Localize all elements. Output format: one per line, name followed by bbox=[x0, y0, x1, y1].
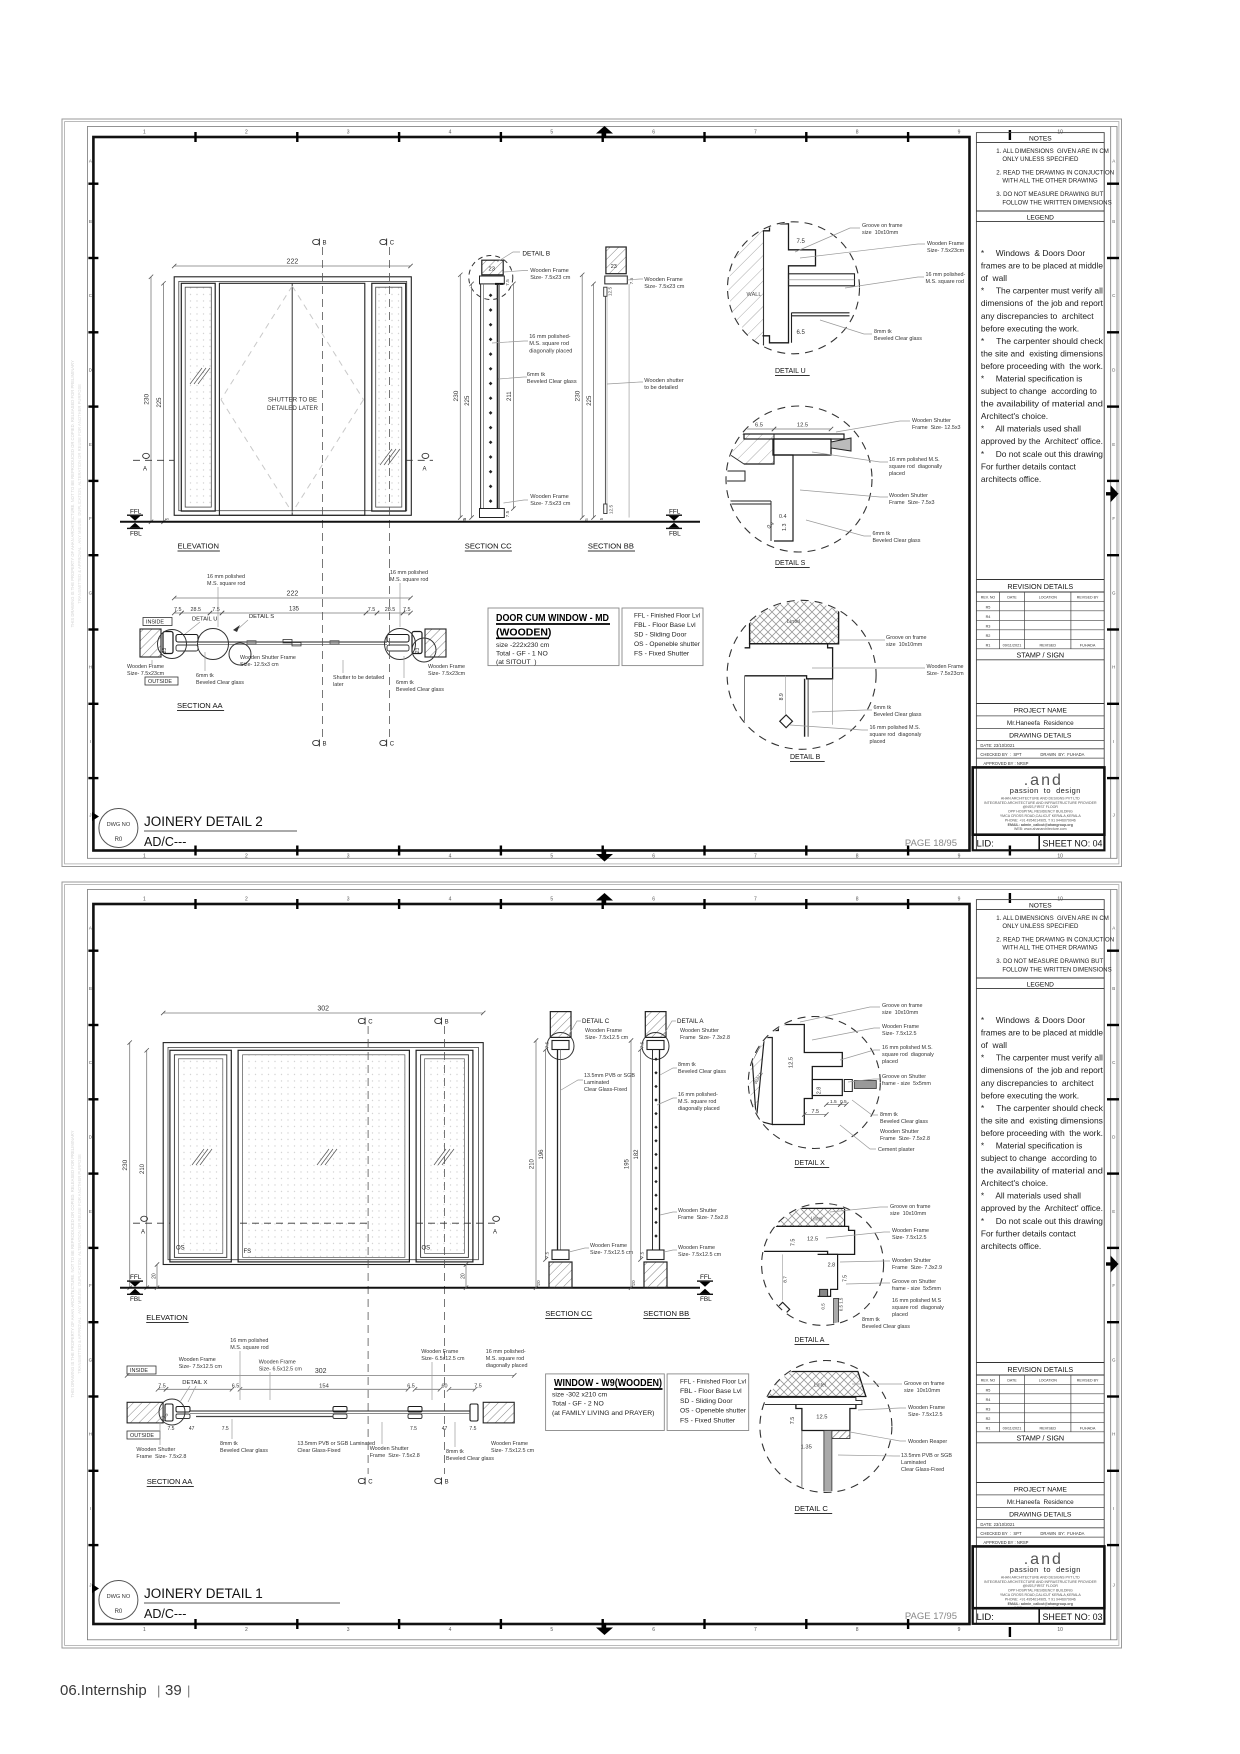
svg-text:TRANSMITTED & APPROVAL . ANY M: TRANSMITTED & APPROVAL . ANY MISUSE DUPL… bbox=[77, 1154, 82, 1374]
svg-text:196: 196 bbox=[539, 1149, 545, 1160]
s2 plan left wall hatch bbox=[127, 1402, 163, 1423]
svg-text:4: 4 bbox=[449, 897, 452, 903]
svg-text:to be detailed: to be detailed bbox=[644, 385, 678, 391]
svg-text:7.5: 7.5 bbox=[368, 607, 376, 613]
detail S circle bbox=[726, 406, 872, 552]
svg-text:size 10x10mm: size 10x10mm bbox=[862, 230, 899, 236]
svg-text:7: 7 bbox=[754, 1627, 757, 1633]
section CC top hatched frame block bbox=[482, 260, 503, 275]
svg-text:7: 7 bbox=[754, 130, 757, 136]
svg-text:6mm tk: 6mm tk bbox=[196, 673, 214, 679]
detail A lintel hatch bbox=[765, 1208, 845, 1226]
svg-text:DETAIL B: DETAIL B bbox=[522, 251, 550, 258]
svg-text:Size- 12.5x3 cm: Size- 12.5x3 cm bbox=[240, 662, 279, 668]
sheet2 dims 230 210 bbox=[129, 1043, 131, 1288]
svg-text:later: later bbox=[333, 682, 344, 688]
svg-text:architects office.: architects office. bbox=[981, 474, 1041, 484]
svg-text:J: J bbox=[1113, 1583, 1115, 1588]
svg-text:Beveled Clear glass: Beveled Clear glass bbox=[874, 712, 922, 718]
right column outer box bbox=[976, 900, 1104, 1624]
svg-text:Wooden Shutter: Wooden Shutter bbox=[889, 493, 928, 499]
svg-text:JOINERY DETAIL 1: JOINERY DETAIL 1 bbox=[144, 1586, 263, 1601]
s2 plan frame members bbox=[165, 1404, 173, 1421]
detail C reaper hatched bbox=[828, 1431, 850, 1439]
svg-text:AHAN ARCHITECTURE AND DESIGNS: AHAN ARCHITECTURE AND DESIGNS PVT LTD bbox=[1001, 796, 1080, 800]
svg-text:SECTION CC: SECTION CC bbox=[465, 542, 512, 551]
svg-text:Shutter to be detailed: Shutter to be detailed bbox=[333, 675, 384, 681]
sheet2 elevation frame bbox=[163, 1043, 483, 1265]
sheet2 centre FS panel bbox=[238, 1050, 409, 1262]
svg-text:Wooden Frame: Wooden Frame bbox=[927, 664, 964, 670]
svg-text:FS: FS bbox=[244, 1249, 252, 1255]
svg-text:I: I bbox=[1113, 739, 1114, 744]
section AA B C dashed continuation bbox=[321, 560, 323, 737]
svg-text:7.5: 7.5 bbox=[812, 1109, 820, 1115]
detail A glass strip bbox=[834, 1298, 839, 1338]
s2 CC glass strip bbox=[557, 1050, 559, 1251]
svg-text:2. READ THE DRAWING IN CONJUCT: 2. READ THE DRAWING IN CONJUCTION bbox=[996, 937, 1114, 944]
svg-text:* Do not scale out this dr: * Do not scale out this drawing bbox=[981, 449, 1103, 459]
svg-text:Size- 7.5x23 cm: Size- 7.5x23 cm bbox=[644, 284, 684, 290]
detail C circle bbox=[760, 1361, 892, 1493]
svg-text:210: 210 bbox=[530, 1158, 536, 1169]
marker B bottom bbox=[313, 740, 320, 745]
svg-text:13.5mm PVB or SGB Laminated: 13.5mm PVB or SGB Laminated bbox=[297, 1441, 375, 1447]
sheet2 floor line bbox=[120, 1287, 700, 1289]
svg-text:M.S. square rod: M.S. square rod bbox=[926, 279, 964, 285]
svg-text:1: 1 bbox=[143, 897, 146, 903]
svg-text:square rod diagonaly: square rod diagonaly bbox=[892, 1305, 944, 1311]
svg-text:DETAIL B: DETAIL B bbox=[790, 754, 821, 761]
ruler ticks top/bottom bbox=[194, 899, 196, 909]
sheet2 right OS panel bbox=[416, 1050, 473, 1262]
svg-text:size 10x10mm: size 10x10mm bbox=[890, 1211, 927, 1217]
svg-text:I: I bbox=[1113, 1506, 1114, 1511]
svg-text:230: 230 bbox=[144, 393, 151, 404]
svg-text:OS - Openeble shutter: OS - Openeble shutter bbox=[634, 641, 701, 648]
s2 plan detail bubble bbox=[159, 1399, 185, 1425]
svg-text:frames are to be placed at mid: frames are to be placed at middle bbox=[981, 261, 1103, 271]
svg-text:5: 5 bbox=[550, 130, 553, 136]
svg-text:DETAIL A: DETAIL A bbox=[677, 1018, 704, 1025]
svg-text:APPROVED BY : NRSP: APPROVED BY : NRSP bbox=[983, 1540, 1028, 1545]
svg-text:3: 3 bbox=[347, 130, 350, 136]
svg-text:Wooden Frame: Wooden Frame bbox=[678, 1245, 715, 1251]
detail S lower ledge bbox=[721, 500, 771, 502]
svg-text:1: 1 bbox=[143, 854, 146, 860]
reference band inner right line bbox=[1110, 127, 1112, 859]
svg-text:of wall: of wall bbox=[981, 1040, 1007, 1050]
centering arrow right bbox=[1111, 485, 1119, 502]
svg-text:INSIDE: INSIDE bbox=[146, 620, 164, 626]
svg-text:ELEVATION: ELEVATION bbox=[146, 1313, 188, 1322]
plan sliding meeting stiles bbox=[283, 640, 292, 643]
svg-text:For further details contact: For further details contact bbox=[981, 461, 1077, 471]
detail S rod strip left bbox=[721, 471, 745, 481]
svg-text:3: 3 bbox=[347, 897, 350, 903]
detail B bubble on section CC bbox=[469, 256, 513, 300]
LID / SHEET NO row bbox=[973, 835, 1105, 851]
svg-text:APPROVED BY : NRSP: APPROVED BY : NRSP bbox=[983, 761, 1028, 766]
svg-text:TRANSMITTED & APPROVAL . ANY M: TRANSMITTED & APPROVAL . ANY MISUSE DUPL… bbox=[77, 384, 82, 604]
svg-text:PAGE 17/95: PAGE 17/95 bbox=[905, 1611, 957, 1622]
svg-text:NOTES: NOTES bbox=[1029, 903, 1052, 910]
svg-text:JOINERY DETAIL 2: JOINERY DETAIL 2 bbox=[144, 814, 263, 829]
s2 CC dims bbox=[535, 1041, 537, 1288]
detail B frame below lintel bbox=[745, 644, 833, 679]
svg-text:Beveled Clear glass: Beveled Clear glass bbox=[446, 1456, 494, 1462]
svg-text:R0: R0 bbox=[115, 837, 123, 843]
main thick border bbox=[93, 137, 969, 851]
svg-text:Wooden Frame: Wooden Frame bbox=[530, 494, 568, 500]
detail B circle bbox=[727, 600, 876, 749]
svg-text:Lintel: Lintel bbox=[814, 1383, 826, 1389]
svg-text:302: 302 bbox=[317, 1006, 329, 1013]
svg-text:Mr.Haneefa Residence: Mr.Haneefa Residence bbox=[1007, 1499, 1074, 1506]
svg-text:* The carpenter should che: * The carpenter should check bbox=[981, 1103, 1104, 1113]
s2 INSIDE OUTSIDE labels bbox=[127, 1366, 156, 1374]
svg-text:60: 60 bbox=[442, 1384, 448, 1390]
svg-text:Groove on frame: Groove on frame bbox=[862, 223, 902, 229]
detail B glass lines bbox=[804, 679, 806, 737]
svg-text:10: 10 bbox=[1057, 1627, 1063, 1633]
svg-text:* Do not scale out this dr: * Do not scale out this drawing bbox=[981, 1216, 1103, 1226]
svg-text:Wooden Shutter: Wooden Shutter bbox=[370, 1446, 409, 1452]
svg-text:placed: placed bbox=[889, 471, 905, 477]
sheet outer border bbox=[62, 882, 1122, 1648]
svg-text:Beveled Clear glass: Beveled Clear glass bbox=[678, 1069, 726, 1075]
svg-text:I: I bbox=[90, 739, 91, 744]
svg-text:0.5 1.5: 0.5 1.5 bbox=[839, 1297, 844, 1311]
svg-text:5: 5 bbox=[550, 897, 553, 903]
svg-text:0.5: 0.5 bbox=[821, 1303, 826, 1310]
svg-text:FOLLOW THE WRITTEN DIMENSIONS: FOLLOW THE WRITTEN DIMENSIONS bbox=[1002, 966, 1111, 973]
svg-text:For further details contact: For further details contact bbox=[981, 1228, 1077, 1238]
svg-text:20: 20 bbox=[631, 1280, 637, 1286]
sheet2 section lines C B bbox=[367, 1026, 369, 1474]
svg-text:16 mm polished-: 16 mm polished- bbox=[486, 1349, 526, 1355]
svg-text:H: H bbox=[1112, 665, 1115, 670]
detail A annotations bbox=[830, 1207, 888, 1212]
sheet1 elevation frame bbox=[174, 277, 411, 516]
svg-text:* Material specification i: * Material specification is bbox=[981, 1141, 1082, 1151]
svg-text:Wooden Shutter: Wooden Shutter bbox=[136, 1447, 175, 1453]
svg-text:PAGE 18/95: PAGE 18/95 bbox=[905, 838, 957, 849]
svg-text:LOCATION: LOCATION bbox=[1039, 1379, 1058, 1383]
door schedule box bbox=[488, 608, 619, 666]
marker B top bbox=[313, 239, 320, 244]
svg-text:SD - Sliding Door: SD - Sliding Door bbox=[680, 1398, 733, 1405]
s2 BB shutter strip with rod dots bbox=[652, 1050, 654, 1251]
svg-text:LEGEND: LEGEND bbox=[1027, 981, 1054, 988]
section CC annotations bbox=[504, 271, 529, 273]
svg-text:SHEET NO: 03: SHEET NO: 03 bbox=[1043, 1612, 1103, 1623]
svg-text:F: F bbox=[1112, 516, 1115, 521]
svg-text:WALL: WALL bbox=[747, 292, 762, 298]
svg-text:7.5: 7.5 bbox=[212, 607, 220, 613]
svg-text:Wooden Frame: Wooden Frame bbox=[179, 1357, 216, 1363]
s2 section AA dims row bbox=[158, 1388, 166, 1390]
section BB wall face line bbox=[628, 284, 630, 518]
svg-text:SECTION AA: SECTION AA bbox=[147, 1477, 194, 1486]
detail A frame bbox=[761, 1226, 855, 1254]
svg-text:DATE: DATE bbox=[1007, 1379, 1017, 1383]
centering arrow bottom bbox=[596, 1628, 613, 1636]
svg-text:M.S. square rod: M.S. square rod bbox=[529, 341, 569, 347]
svg-text:9: 9 bbox=[958, 897, 961, 903]
svg-text:225: 225 bbox=[157, 397, 163, 408]
svg-text:C: C bbox=[390, 241, 395, 247]
svg-text:6.5: 6.5 bbox=[797, 330, 806, 336]
svg-text:frame - size 5x5mm: frame - size 5x5mm bbox=[892, 1286, 941, 1292]
svg-text:OPP HOSPITAL RESIDENCY BUILDIN: OPP HOSPITAL RESIDENCY BUILDING bbox=[1008, 1589, 1073, 1593]
svg-text:7.5: 7.5 bbox=[469, 1426, 476, 1432]
svg-text:* The carpenter must verif: * The carpenter must verify all bbox=[981, 286, 1103, 296]
svg-text:approved by the Architect' of: approved by the Architect' office. bbox=[981, 436, 1103, 446]
LEGEND header bbox=[976, 977, 1104, 979]
section BB annotations bbox=[627, 279, 643, 280]
svg-text:J: J bbox=[89, 1583, 91, 1588]
svg-text:Size- 6.5x12.5 cm: Size- 6.5x12.5 cm bbox=[259, 1367, 303, 1373]
detail U circle bbox=[728, 222, 860, 354]
revision table bbox=[976, 600, 1104, 602]
svg-text:STAMP / SIGN: STAMP / SIGN bbox=[1016, 1433, 1064, 1442]
window schedule box bbox=[546, 1374, 665, 1431]
svg-text:7.5: 7.5 bbox=[410, 1426, 417, 1432]
svg-text:Groove on frame: Groove on frame bbox=[886, 635, 926, 641]
svg-text:2.8: 2.8 bbox=[816, 1087, 822, 1095]
svg-text:Wooden Frame: Wooden Frame bbox=[428, 664, 465, 670]
plan right frame members bbox=[412, 632, 422, 654]
ruler ticks left/right bbox=[88, 950, 98, 952]
svg-text:225: 225 bbox=[587, 395, 593, 406]
svg-text:A: A bbox=[89, 158, 92, 163]
svg-text:Frame Size- 7.5x2.8: Frame Size- 7.5x2.8 bbox=[880, 1136, 930, 1142]
svg-text:Size- 7.5x23cm: Size- 7.5x23cm bbox=[927, 671, 965, 677]
reference band line bbox=[87, 127, 1117, 859]
svg-text:Wooden Frame: Wooden Frame bbox=[127, 664, 164, 670]
svg-text:square rod diagonaly: square rod diagonaly bbox=[870, 732, 922, 738]
s2 plan glass lines bbox=[190, 1410, 470, 1412]
detail S vertical frame bbox=[744, 455, 793, 541]
svg-text:Wooden shutter: Wooden shutter bbox=[644, 378, 684, 384]
svg-text:Architect's choice.: Architect's choice. bbox=[981, 1178, 1048, 1188]
sheet1 elevation left sidelight bbox=[181, 283, 215, 511]
svg-text:7.5: 7.5 bbox=[158, 1384, 166, 1390]
svg-text:passion to design: passion to design bbox=[1010, 1565, 1081, 1574]
svg-text:FFL: FFL bbox=[669, 508, 681, 515]
svg-text:302: 302 bbox=[315, 1368, 327, 1375]
svg-text:F: F bbox=[89, 1283, 92, 1288]
svg-text:frames are to be placed at mid: frames are to be placed at middle bbox=[981, 1028, 1103, 1038]
svg-text:EMAIL: admin_calicut@ahangroup: EMAIL: admin_calicut@ahangroup.org bbox=[1008, 1602, 1073, 1606]
svg-text:(WOODEN): (WOODEN) bbox=[496, 627, 551, 639]
svg-text:E: E bbox=[1112, 1209, 1115, 1214]
svg-text:8mm tk: 8mm tk bbox=[446, 1449, 464, 1455]
svg-text:210: 210 bbox=[140, 1163, 146, 1174]
s2 section CC head frame bbox=[552, 1041, 569, 1050]
sheet2 A markers bbox=[133, 1222, 170, 1224]
detail U annotations bbox=[795, 228, 860, 252]
svg-text:9: 9 bbox=[958, 130, 961, 136]
svg-text:2. READ THE DRAWING IN CONJUCT: 2. READ THE DRAWING IN CONJUCTION bbox=[996, 170, 1114, 177]
svg-text:Cement plaster: Cement plaster bbox=[878, 1147, 915, 1153]
svg-text:(at SITOUT ): (at SITOUT ) bbox=[496, 659, 537, 666]
svg-text:architects office.: architects office. bbox=[981, 1241, 1041, 1251]
svg-text:DETAIL C: DETAIL C bbox=[582, 1018, 610, 1025]
svg-text:Size- 7.5x12.5 cm: Size- 7.5x12.5 cm bbox=[491, 1448, 535, 1454]
svg-text:7: 7 bbox=[754, 897, 757, 903]
svg-text:Size- 7.5x23cm: Size- 7.5x23cm bbox=[127, 671, 165, 677]
s2 section BB head frame bbox=[647, 1041, 664, 1050]
abbrev legend box bbox=[622, 608, 703, 666]
DWG NO circle s2 bbox=[99, 1581, 138, 1620]
detail A circle bbox=[762, 1203, 884, 1325]
s2 section AA dim 302 bbox=[127, 1374, 514, 1376]
svg-text:B: B bbox=[89, 986, 92, 991]
svg-text:1: 1 bbox=[143, 1627, 146, 1633]
svg-text:9: 9 bbox=[958, 1627, 961, 1633]
svg-text:8mm tk: 8mm tk bbox=[220, 1441, 238, 1447]
svg-text:G: G bbox=[1112, 590, 1116, 595]
svg-text:6.5: 6.5 bbox=[755, 423, 763, 429]
svg-text:AHAN ARCHITECTURE AND DESIGNS: AHAN ARCHITECTURE AND DESIGNS PVT LTD bbox=[1001, 1575, 1080, 1579]
svg-text:Wooden Frame: Wooden Frame bbox=[927, 241, 964, 247]
svg-text:3: 3 bbox=[347, 854, 350, 860]
svg-text:Wooden Frame: Wooden Frame bbox=[259, 1360, 296, 1366]
marker C bottom bbox=[380, 740, 387, 745]
svg-text:A: A bbox=[1112, 158, 1115, 163]
svg-text:ONLY UNLESS SPECIFIED: ONLY UNLESS SPECIFIED bbox=[1002, 156, 1079, 163]
svg-text:SECTION BB: SECTION BB bbox=[588, 542, 634, 551]
svg-text:0.5: 0.5 bbox=[840, 1099, 847, 1105]
svg-text:12.5: 12.5 bbox=[797, 423, 808, 429]
svg-text:approved by the Architect' of: approved by the Architect' office. bbox=[981, 1203, 1103, 1213]
svg-text:Wooden Shutter: Wooden Shutter bbox=[880, 1129, 919, 1135]
svg-text:placed: placed bbox=[882, 1059, 898, 1065]
svg-text:E: E bbox=[1112, 442, 1115, 447]
svg-text:placed: placed bbox=[870, 739, 886, 745]
detail X wall hatch bbox=[736, 1038, 764, 1121]
REVISION DETAILS header bbox=[976, 1362, 1104, 1364]
svg-text:1.3: 1.3 bbox=[782, 524, 788, 532]
svg-text:09/11/2021: 09/11/2021 bbox=[1003, 643, 1022, 647]
svg-text:R4: R4 bbox=[986, 1398, 991, 1402]
svg-text:NOTES: NOTES bbox=[1029, 136, 1052, 143]
svg-text:211: 211 bbox=[507, 391, 513, 401]
svg-text:16 mm polished: 16 mm polished bbox=[390, 570, 428, 576]
floor line bbox=[120, 521, 700, 523]
svg-text:7.5: 7.5 bbox=[797, 239, 806, 245]
svg-text:3. DO NOT MEASURE DRAWING BUT: 3. DO NOT MEASURE DRAWING BUT bbox=[996, 191, 1103, 198]
svg-text:16 mm polished: 16 mm polished bbox=[230, 1338, 268, 1344]
svg-text:PROJECT NAME: PROJECT NAME bbox=[1014, 1487, 1068, 1494]
svg-text:Size- 7.5x12.5: Size- 7.5x12.5 bbox=[882, 1031, 916, 1037]
svg-text:AD/C---: AD/C--- bbox=[144, 1607, 186, 1621]
svg-text:of wall: of wall bbox=[981, 273, 1007, 283]
s2 marker B bottom bbox=[435, 1478, 442, 1483]
s2 CC detail bubble bbox=[547, 1033, 574, 1060]
svg-text:FFL - Finished Floor Lvl: FFL - Finished Floor Lvl bbox=[680, 1378, 746, 1385]
section AA dims top bbox=[174, 597, 410, 599]
svg-text:|: | bbox=[187, 1683, 190, 1698]
svg-text:size 10x10mm: size 10x10mm bbox=[886, 642, 923, 648]
svg-text:FBL - Floor Base Lvl: FBL - Floor Base Lvl bbox=[634, 622, 696, 629]
svg-text:ONLY UNLESS SPECIFIED: ONLY UNLESS SPECIFIED bbox=[1002, 923, 1079, 930]
svg-text:6mm tk: 6mm tk bbox=[874, 705, 892, 711]
svg-text:B: B bbox=[1112, 986, 1115, 991]
svg-text:B: B bbox=[445, 1480, 449, 1486]
s2 BB detail bubble bbox=[642, 1033, 669, 1060]
sheet1 elevation right sidelight bbox=[372, 283, 406, 511]
detail C lintel hatch bbox=[761, 1372, 866, 1397]
detail U rod strip bbox=[789, 274, 855, 286]
svg-text:* All materials used shall: * All materials used shall bbox=[981, 1191, 1081, 1201]
svg-text:LEGEND: LEGEND bbox=[1027, 214, 1054, 221]
svg-text:23: 23 bbox=[162, 648, 168, 654]
A markers bbox=[133, 459, 174, 461]
svg-text:5: 5 bbox=[550, 1627, 553, 1633]
logo box .and passion to design bbox=[973, 767, 1105, 834]
svg-text:7.5: 7.5 bbox=[545, 1251, 551, 1258]
centering arrow bottom bbox=[596, 854, 613, 862]
svg-text:6mm tk: 6mm tk bbox=[396, 680, 414, 686]
svg-text:dimensions of the job and rep: dimensions of the job and report bbox=[981, 298, 1104, 308]
svg-text:LID:: LID: bbox=[977, 838, 994, 849]
svg-text:Size- 7.5x23 cm: Size- 7.5x23 cm bbox=[530, 501, 570, 507]
svg-text:F: F bbox=[89, 516, 92, 521]
svg-text:R5: R5 bbox=[986, 605, 991, 609]
svg-text:SECTION AA: SECTION AA bbox=[177, 701, 224, 710]
svg-text:diagonally placed: diagonally placed bbox=[678, 1106, 720, 1112]
svg-text:8mm tk: 8mm tk bbox=[862, 1317, 880, 1323]
svg-text:4: 4 bbox=[449, 1627, 452, 1633]
svg-text:INSIDE: INSIDE bbox=[130, 1368, 148, 1374]
svg-text:|: | bbox=[157, 1683, 160, 1698]
svg-text:Groove on frame: Groove on frame bbox=[904, 1381, 944, 1387]
svg-text:OS: OS bbox=[176, 1246, 185, 1252]
svg-text:the availability of material a: the availability of material and bbox=[981, 1166, 1103, 1176]
svg-text:B: B bbox=[1112, 219, 1115, 224]
svg-text:Wooden Reaper: Wooden Reaper bbox=[908, 1439, 947, 1445]
detail B lintel hatch bbox=[750, 598, 839, 644]
svg-text:SHUTTER TO BE: SHUTTER TO BE bbox=[268, 397, 317, 404]
svg-text:DETAIL A: DETAIL A bbox=[795, 1337, 825, 1344]
NOTES box bbox=[976, 141, 1104, 143]
svg-text:placed: placed bbox=[892, 1312, 908, 1318]
svg-text:6mm tk: 6mm tk bbox=[527, 372, 546, 378]
svg-text:any discrepancies to architec: any discrepancies to architect bbox=[981, 1078, 1094, 1088]
svg-text:Wooden Frame: Wooden Frame bbox=[882, 1024, 919, 1030]
detail U wall hatch bbox=[726, 222, 764, 354]
svg-text:before proceeding with the wo: before proceeding with the work. bbox=[981, 361, 1103, 371]
svg-text:7.5: 7.5 bbox=[505, 510, 511, 517]
svg-text:7.5: 7.5 bbox=[222, 1426, 229, 1432]
shutter dashed diamond bbox=[221, 286, 292, 400]
svg-text:DRAWING DETAILS: DRAWING DETAILS bbox=[1009, 732, 1072, 739]
svg-text:DATE: 23/10/2021: DATE: 23/10/2021 bbox=[980, 1522, 1015, 1527]
abbrev legend box s2 bbox=[667, 1374, 749, 1431]
glazing mark right bbox=[380, 449, 392, 465]
svg-text:8: 8 bbox=[856, 1627, 859, 1633]
svg-text:A: A bbox=[141, 1230, 145, 1236]
svg-text:dimensions of the job and rep: dimensions of the job and report bbox=[981, 1065, 1104, 1075]
svg-text:FBL: FBL bbox=[700, 1296, 712, 1303]
svg-text:16 mm polished: 16 mm polished bbox=[207, 574, 245, 580]
svg-text:Wooden Frame: Wooden Frame bbox=[892, 1228, 929, 1234]
svg-text:FFL - Finished Floor Lvl: FFL - Finished Floor Lvl bbox=[634, 613, 700, 620]
svg-text:182: 182 bbox=[634, 1149, 640, 1160]
